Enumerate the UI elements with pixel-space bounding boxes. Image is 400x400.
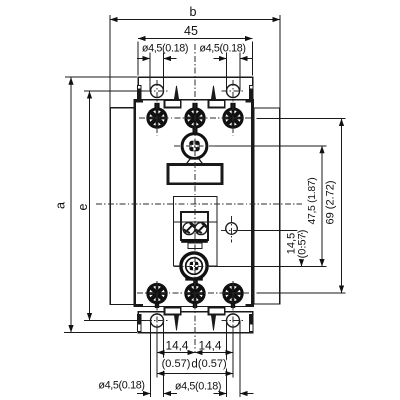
- svg-text:(0.57): (0.57): [162, 358, 191, 370]
- svg-text:47,5 (1.87): 47,5 (1.87): [307, 178, 318, 225]
- svg-text:14,4: 14,4: [199, 339, 222, 353]
- svg-text:b: b: [190, 5, 197, 19]
- svg-text:69 (2.72): 69 (2.72): [325, 180, 337, 224]
- svg-text:a: a: [54, 202, 68, 209]
- svg-text:14,4: 14,4: [166, 339, 189, 353]
- svg-text:ø4,5(0.18): ø4,5(0.18): [175, 381, 221, 393]
- svg-text:e: e: [76, 203, 90, 210]
- svg-text:ø4,5(0.18): ø4,5(0.18): [98, 380, 144, 392]
- svg-text:d: d: [191, 358, 197, 370]
- svg-text:(0.57): (0.57): [297, 230, 309, 259]
- svg-text:ø4,5(0.18): ø4,5(0.18): [142, 43, 188, 55]
- svg-text:ø4,5(0.18): ø4,5(0.18): [199, 43, 245, 55]
- svg-text:(0.57): (0.57): [198, 358, 227, 370]
- svg-text:45: 45: [184, 24, 198, 38]
